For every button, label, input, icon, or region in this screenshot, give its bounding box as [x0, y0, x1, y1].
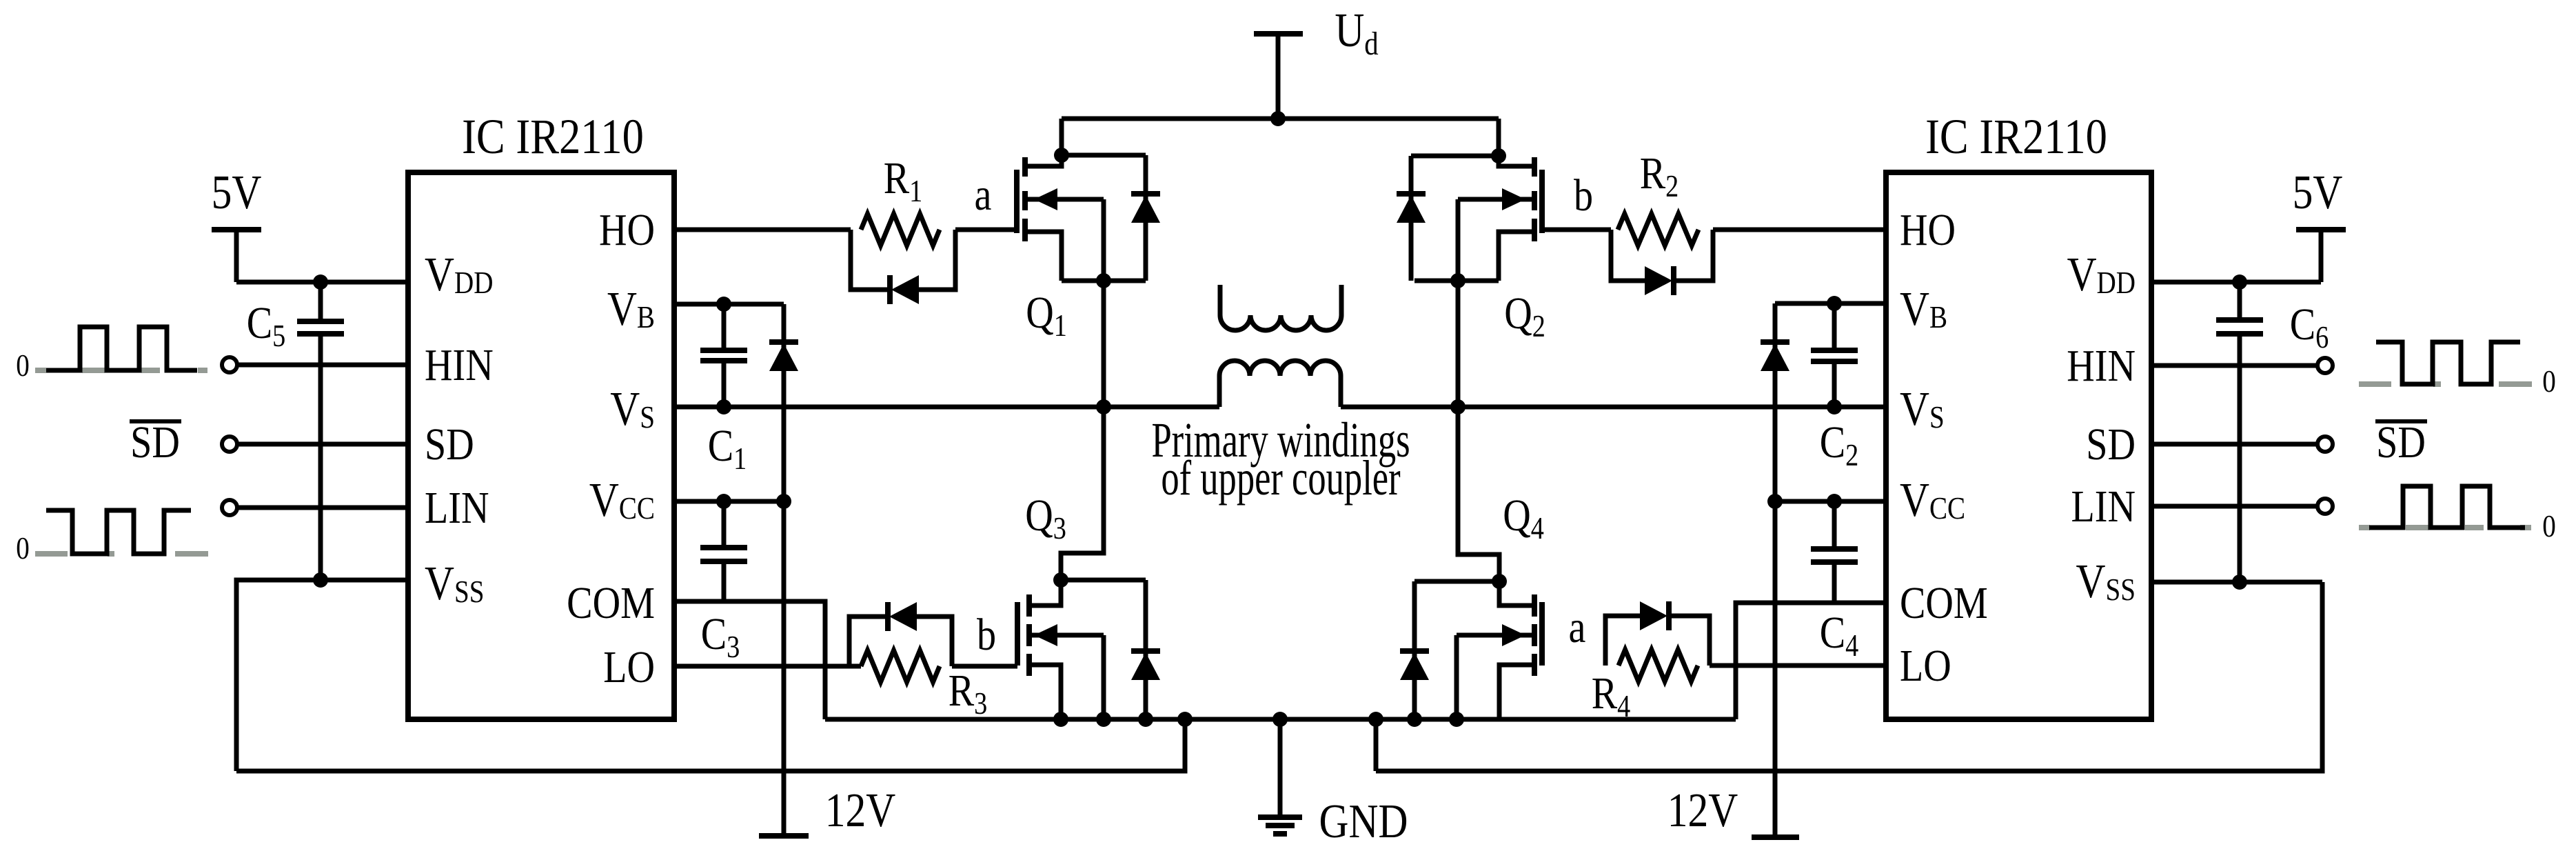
svg-text:IC IR2110: IC IR2110	[462, 109, 644, 164]
node Q3 source on rail	[1053, 712, 1068, 727]
svg-text:0: 0	[16, 531, 30, 566]
label Q1	[1026, 288, 1067, 343]
label 0 (right HIN waveform)	[2542, 364, 2556, 399]
node VCC-12V junction (right)	[1767, 494, 1783, 509]
diode D4 antiparallel with R4	[1640, 601, 1669, 630]
transistor Q3	[1017, 580, 1104, 719]
svg-text:COM: COM	[1900, 578, 1988, 628]
diode body diode of Q3	[1131, 580, 1160, 719]
node Q2 drain junction	[1491, 148, 1506, 163]
capacitor C2	[1811, 303, 1858, 473]
pin VS label (right IC)	[1900, 383, 1945, 437]
capacitor C5	[247, 282, 344, 580]
pin SD label (left IC)	[425, 419, 474, 470]
label Primary windings of upper coupler	[1151, 412, 1410, 506]
wire R3 to Q3 gate	[952, 664, 1017, 669]
wire LIN right	[2151, 504, 2318, 509]
node Q4 diode on rail	[1407, 712, 1422, 727]
node left rail branch	[1177, 712, 1193, 727]
node VCC-C3 junction	[716, 494, 731, 509]
capacitor C3	[700, 501, 747, 665]
wire 12V column (left)	[782, 501, 787, 836]
node a label (Q1 gate)	[975, 170, 992, 220]
terminal LIN input circle (right)	[2318, 499, 2333, 514]
node b on VS rail	[1450, 399, 1466, 414]
node VB-C2 junction	[1827, 296, 1842, 311]
wire HIN left	[237, 363, 408, 368]
wire C6 column to VSS	[2238, 334, 2242, 582]
power 12V supply (right)	[1667, 784, 1799, 838]
diode bootstrap D6 (right)	[1761, 303, 1789, 501]
svg-text:12V: 12V	[1667, 784, 1738, 838]
wire Q4 drain to body diode	[1414, 579, 1499, 584]
node C6-VSS junction	[2232, 574, 2247, 590]
wire HO to R1	[674, 228, 851, 232]
terminal LIN input circle (left)	[222, 500, 237, 515]
pin HO label (right IC)	[1900, 205, 1956, 255]
wire HIN right	[2151, 363, 2318, 368]
wire R4 parallel branch	[1605, 616, 1710, 666]
svg-text:0: 0	[2542, 364, 2556, 399]
pin SD label (right IC)	[2086, 419, 2136, 470]
pin VB label (right IC)	[1900, 283, 1947, 337]
node Ud junction on top rail	[1270, 111, 1286, 126]
svg-text:5V: 5V	[2293, 166, 2343, 220]
wire VSS left to bottom rail	[236, 580, 408, 771]
wire VB left	[674, 302, 784, 307]
wire COM to source rail (right)	[1736, 603, 1886, 719]
op-amp U2 IC IR2110 (right) box	[1886, 172, 2151, 719]
wire SD left	[237, 442, 408, 447]
diode body diode of Q1	[1131, 155, 1160, 281]
node VCC-12V junction (left)	[776, 494, 791, 509]
wire R4 to LO (right IC)	[1710, 663, 1886, 668]
pin LO label (right IC)	[1900, 641, 1951, 691]
terminal SD input circle (right)	[2318, 437, 2333, 452]
diode body diode of Q2	[1397, 156, 1426, 281]
wire Q3 drain from node a	[1061, 407, 1104, 580]
wire LO to R3	[674, 664, 861, 669]
label SD-bar (right)	[2375, 417, 2427, 468]
label 0 (left LIN waveform)	[16, 531, 30, 566]
pin HIN label (left IC)	[425, 340, 494, 390]
diode bootstrap D5 (left)	[769, 304, 798, 501]
resistor R3	[861, 650, 987, 721]
node Q1 source junction	[1096, 273, 1111, 288]
pin VB label (left IC)	[607, 283, 655, 337]
svg-text:b: b	[977, 610, 996, 660]
wire VCC right	[1775, 499, 1886, 504]
svg-text:HIN: HIN	[425, 340, 494, 390]
svg-text:5V: 5V	[212, 166, 262, 220]
pin LIN label (right IC)	[2071, 481, 2136, 532]
diode D2 antiparallel with R2	[1645, 266, 1674, 295]
pin HIN label (right IC)	[2067, 341, 2136, 391]
svg-text:LIN: LIN	[2071, 481, 2136, 532]
wire COM to source rail (left)	[674, 601, 825, 719]
wire VB right	[1775, 301, 1886, 306]
power 5V supply (right)	[2293, 166, 2346, 282]
terminal HIN input circle (left)	[222, 357, 237, 372]
wire Q2 drain to body diode	[1411, 154, 1499, 159]
svg-text:a: a	[1569, 602, 1586, 652]
capacitor C4	[1811, 501, 1858, 663]
svg-text:a: a	[975, 170, 992, 220]
pin VSS label (left IC)	[425, 557, 484, 611]
svg-text:HO: HO	[1900, 205, 1956, 255]
label SD-bar (left)	[130, 417, 181, 468]
transistor Q2	[1414, 119, 1542, 281]
waveform LIN input (left)	[35, 510, 208, 554]
wire VCC left	[674, 499, 784, 504]
pin COM label (left IC)	[567, 578, 655, 628]
wire source rail	[825, 717, 1736, 722]
wire VDD left	[236, 280, 408, 285]
label Ud	[1335, 4, 1378, 62]
svg-text:12V: 12V	[825, 784, 896, 838]
node a on VS rail	[1096, 399, 1111, 414]
node Q4 body on rail	[1449, 712, 1464, 727]
pin VS label (left IC)	[610, 383, 655, 437]
svg-text:GND: GND	[1319, 795, 1408, 849]
node VB-C1 junction	[716, 297, 731, 312]
label 0 (right LIN waveform)	[2542, 509, 2556, 544]
resistor R2	[1618, 148, 1698, 246]
label Q2	[1504, 288, 1545, 344]
pin VDD label (left IC)	[425, 248, 493, 302]
node Q4 drain junction	[1492, 574, 1507, 589]
svg-text:LO: LO	[603, 642, 655, 692]
wire R2 to Q2 gate	[1542, 228, 1611, 232]
node b label (Q2 gate)	[1574, 170, 1593, 221]
node Q3 body on rail	[1096, 712, 1111, 727]
node GND junction	[1272, 712, 1288, 727]
wire Q3 drain to body diode	[1061, 578, 1146, 583]
label Q3	[1025, 490, 1066, 546]
node VCC-C4 junction	[1827, 494, 1842, 509]
svg-text:SD: SD	[2086, 419, 2136, 470]
wire R2 parallel branch	[1611, 230, 1713, 281]
transistor Q4	[1457, 581, 1542, 719]
label IC IR2110 (left)	[462, 109, 644, 164]
waveform HIN input (left)	[35, 327, 207, 370]
wire Q2 source to VS rail (node b)	[1456, 281, 1461, 407]
svg-text:IC IR2110: IC IR2110	[1925, 109, 2107, 164]
pin LO label (left IC)	[603, 642, 655, 692]
wire right branch to bottom rail	[1374, 719, 1379, 771]
power 12V supply (left)	[759, 784, 895, 838]
wire bottom rail (right)	[1376, 582, 2322, 771]
wire Q1 source to VS rail (node a)	[1102, 281, 1106, 407]
inductor primary winding (lower)	[1219, 361, 1341, 407]
diode D1 antiparallel with R1	[890, 275, 919, 304]
wire VS rail (right)	[1341, 405, 1886, 410]
svg-text:SD: SD	[425, 419, 474, 470]
node Q3 diode on rail	[1138, 712, 1153, 727]
wire VSS right	[2151, 580, 2322, 585]
wire 12V column (right)	[1773, 501, 1778, 837]
wire R3 parallel branch	[849, 617, 952, 666]
node a label (Q4 gate)	[1569, 602, 1586, 652]
wire R1 parallel branch	[851, 230, 955, 290]
waveform LIN input (right)	[2359, 486, 2531, 528]
capacitor C1	[700, 304, 747, 477]
svg-text:SD: SD	[2376, 417, 2426, 468]
inductor upper winding of coupler	[1220, 285, 1341, 330]
resistor R1	[861, 153, 940, 246]
label 0 (left HIN waveform)	[16, 348, 30, 383]
wire VDD right	[2151, 280, 2321, 285]
power Ud supply	[1254, 34, 1303, 119]
pin VDD label (right IC)	[2067, 248, 2136, 302]
wire R2 to HO (right IC)	[1713, 228, 1886, 232]
node C1-VS junction	[716, 399, 731, 414]
svg-text:HIN: HIN	[2067, 341, 2136, 391]
wire bottom rail (left)	[236, 719, 1185, 771]
node Q3 drain junction	[1053, 572, 1068, 588]
label Q4	[1503, 490, 1544, 546]
pin VCC label (right IC)	[1900, 474, 1965, 528]
wire SD right	[2151, 442, 2318, 447]
power 5V supply (left)	[212, 166, 262, 282]
wire Q4 drain from node b	[1458, 407, 1499, 581]
capacitor C6	[2216, 282, 2329, 582]
label IC IR2110 (right)	[1925, 109, 2107, 164]
node b label (Q3 gate)	[977, 610, 996, 660]
pin LIN label (left IC)	[425, 483, 489, 533]
svg-text:0: 0	[16, 348, 30, 383]
svg-text:LO: LO	[1900, 641, 1951, 691]
svg-text:0: 0	[2542, 509, 2556, 544]
wire C5 column to VSS	[318, 334, 323, 580]
pin VSS label (right IC)	[2076, 555, 2136, 609]
node Q1 drain junction	[1054, 148, 1069, 163]
svg-text:HO: HO	[599, 205, 655, 255]
pin VCC label (left IC)	[589, 474, 655, 528]
diode D3 antiparallel with R3	[888, 602, 917, 631]
svg-text:SD: SD	[130, 417, 180, 468]
waveform HIN input (right)	[2359, 342, 2532, 384]
node Q2 source junction	[1450, 273, 1466, 288]
wire R1 to Q1 gate	[955, 228, 1017, 232]
node right rail branch	[1368, 712, 1383, 727]
label GND	[1319, 795, 1408, 849]
pin HO label (left IC)	[599, 205, 655, 255]
diode body diode of Q4	[1400, 581, 1429, 719]
svg-text:of upper coupler: of upper coupler	[1161, 450, 1400, 506]
wire top rail Ud	[1062, 117, 1499, 121]
node C5-VSS junction	[313, 572, 328, 588]
transistor Q1	[1017, 119, 1146, 281]
ground GND symbol	[1258, 719, 1302, 834]
resistor R4	[1592, 650, 1698, 724]
node VDD-C6 junction	[2232, 274, 2247, 290]
pin COM label (right IC)	[1900, 578, 1988, 628]
op-amp U1 IC IR2110 (left) box	[408, 172, 674, 719]
wire LIN left	[237, 506, 408, 510]
wire Q1 drain to body diode	[1062, 153, 1146, 158]
wire VS rail (left)	[674, 405, 1219, 410]
svg-text:COM: COM	[567, 578, 655, 628]
svg-text:LIN: LIN	[425, 483, 489, 533]
terminal SD input circle (left)	[222, 437, 237, 452]
terminal HIN input circle (right)	[2318, 358, 2333, 373]
node VDD-C5 junction	[313, 274, 328, 290]
svg-text:b: b	[1574, 170, 1593, 221]
node C2-VS junction	[1827, 399, 1842, 414]
